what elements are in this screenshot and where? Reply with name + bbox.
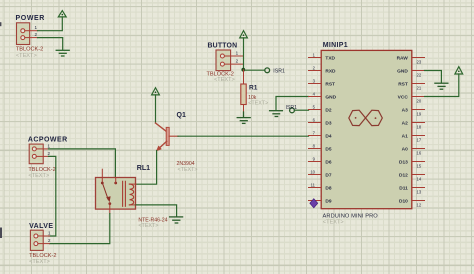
svg-text:21: 21 (417, 86, 422, 91)
MINIP1 infinity logo (349, 110, 383, 125)
svg-text:2: 2 (48, 151, 51, 156)
svg-text:A2: A2 (402, 120, 408, 126)
svg-text:D6: D6 (325, 159, 331, 165)
wire MINIP1 VCC(20) to power (425, 74, 459, 97)
svg-text:2: 2 (236, 59, 239, 64)
svg-text:<TEXT>: <TEXT> (138, 223, 158, 229)
junction dot (BUTTON net) (241, 68, 245, 72)
transistor Q1 (156, 123, 179, 151)
ground (R1) (237, 112, 250, 123)
svg-text:17: 17 (417, 138, 422, 143)
power symbol (top-left) (58, 11, 66, 17)
svg-text:20: 20 (417, 99, 422, 104)
ground (relay coil) (170, 217, 183, 223)
svg-text:RST: RST (325, 81, 335, 87)
svg-text:D2: D2 (325, 107, 331, 113)
MINIP1 left pin stubs (309, 58, 322, 201)
wire relay common to VALVE.2 (50, 214, 110, 244)
svg-text:23: 23 (417, 60, 422, 65)
wire Q1 collector (155, 95, 157, 123)
svg-text:VCC: VCC (398, 94, 409, 100)
terminal ISR1 (MINIP1 D2) (290, 108, 295, 113)
svg-text:<TEXT>: <TEXT> (178, 167, 198, 173)
power symbol (VCC) (455, 67, 463, 74)
svg-text:1: 1 (236, 51, 239, 56)
svg-text:VALVE: VALVE (29, 223, 53, 230)
svg-text:D11: D11 (399, 185, 408, 191)
svg-text:TXD: TXD (325, 55, 335, 61)
svg-text:D5: D5 (325, 146, 331, 152)
wire MINIP1 GND to ground (276, 97, 309, 111)
terminal block POWER body (17, 23, 38, 45)
svg-text:1: 1 (313, 52, 316, 57)
svg-text:D13: D13 (399, 159, 408, 165)
terminal ISR1 (button) (265, 68, 270, 73)
wire ACPOWER.2 to VALVE.1 (49, 156, 56, 236)
svg-text:4: 4 (313, 91, 316, 96)
terminal block BUTTON body (216, 50, 244, 71)
svg-text:<TEXT>: <TEXT> (323, 220, 344, 226)
svg-text:D8: D8 (325, 185, 331, 191)
svg-text:ISR1: ISR1 (273, 69, 285, 75)
wire terminal ISR1 to MINIP1 D2 (294, 109, 308, 111)
wire junction to terminal ISR1 (244, 69, 265, 71)
ground (MINIP1 GND pin 4) (270, 111, 283, 117)
svg-text:RAW: RAW (397, 55, 409, 61)
svg-text:5: 5 (313, 104, 316, 109)
svg-text:RL1: RL1 (137, 165, 150, 172)
svg-text:11: 11 (311, 182, 316, 187)
svg-text:22: 22 (417, 73, 422, 78)
svg-text:TBLOCK-2: TBLOCK-2 (16, 47, 43, 53)
svg-text:RXD: RXD (325, 68, 336, 74)
svg-text:D4: D4 (325, 133, 331, 139)
IC MINIP1 body (321, 50, 412, 208)
marker diamond (D9 pin) (310, 199, 318, 208)
svg-text:<TEXT>: <TEXT> (28, 173, 49, 179)
MINIP1 left pin names (325, 55, 336, 204)
svg-text:2: 2 (35, 32, 38, 37)
power symbol (BUTTON) (240, 31, 248, 38)
svg-text:19: 19 (417, 112, 422, 117)
svg-text:ACPOWER: ACPOWER (28, 137, 68, 144)
svg-text:3: 3 (313, 78, 316, 83)
svg-text:POWER: POWER (16, 15, 45, 22)
svg-text:9: 9 (313, 156, 316, 161)
svg-text:A3: A3 (402, 107, 408, 113)
svg-text:2N3904: 2N3904 (177, 161, 195, 167)
wire BUTTON vertical (arrow to R1) (243, 38, 245, 70)
svg-text:MINIP1: MINIP1 (323, 42, 348, 49)
svg-text:D7: D7 (325, 172, 331, 178)
svg-text:D10: D10 (399, 198, 408, 204)
svg-text:15: 15 (417, 164, 422, 169)
ground (MINIP1 right) (435, 83, 448, 89)
svg-text:D3: D3 (325, 120, 331, 126)
wire MINIP1 GND(22) to ground (425, 71, 442, 83)
wire Q1 base to MINIP1 D4 (178, 135, 309, 137)
wire POWER.1 to VCC arrow (38, 17, 63, 31)
svg-text:12: 12 (417, 203, 422, 208)
svg-text:A0: A0 (402, 146, 408, 152)
svg-text:A1: A1 (402, 133, 408, 139)
MINIP1 left pin numbers (310, 52, 315, 187)
terminal block VALVE body (30, 230, 51, 250)
svg-text:D12: D12 (399, 172, 408, 178)
svg-text:TBLOCK-2: TBLOCK-2 (29, 253, 56, 259)
MINIP1 right pin numbers (417, 60, 422, 208)
svg-text:16: 16 (417, 151, 422, 156)
svg-text:<TEXT>: <TEXT> (248, 101, 268, 107)
svg-text:RST: RST (398, 81, 408, 87)
svg-text:7: 7 (313, 130, 316, 135)
svg-text:10: 10 (310, 169, 315, 174)
svg-text:D9: D9 (325, 198, 331, 204)
power symbol (Q1 collector) (152, 88, 160, 95)
resistor R1 (241, 70, 246, 113)
svg-text:2: 2 (313, 65, 316, 70)
MINIP1 right pin names (397, 55, 409, 204)
terminal block ACPOWER body (29, 144, 50, 164)
svg-text:R1: R1 (249, 85, 258, 92)
screen edge artifact top-left (0, 22, 1, 26)
screen edge artifact bottom-left (0, 228, 2, 239)
wire Q1 emitter to relay coil (136, 151, 157, 185)
MINIP1 right pin stubs (412, 58, 425, 201)
svg-text:2: 2 (48, 238, 51, 243)
svg-text:13: 13 (417, 190, 422, 195)
svg-text:18: 18 (417, 125, 422, 130)
svg-text:6: 6 (313, 117, 316, 122)
svg-text:Q1: Q1 (177, 112, 186, 119)
svg-text:<TEXT>: <TEXT> (16, 53, 37, 59)
svg-text:<TEXT>: <TEXT> (214, 77, 235, 83)
relay RL1 body (96, 169, 137, 213)
svg-text:1: 1 (48, 231, 51, 236)
svg-text:14: 14 (417, 177, 422, 182)
svg-text:<TEXT>: <TEXT> (29, 259, 50, 265)
svg-text:GND: GND (325, 94, 336, 100)
svg-text:8: 8 (313, 143, 316, 148)
svg-text:BUTTON: BUTTON (208, 43, 238, 50)
svg-text:GND: GND (397, 68, 408, 74)
wire ACPOWER.1 to relay contact (49, 149, 116, 178)
ground (POWER) (56, 50, 69, 56)
wire POWER.2 to ground (38, 38, 63, 50)
wire relay coil bottom to ground (136, 205, 177, 217)
svg-text:1: 1 (48, 144, 51, 149)
svg-text:1: 1 (35, 25, 38, 30)
